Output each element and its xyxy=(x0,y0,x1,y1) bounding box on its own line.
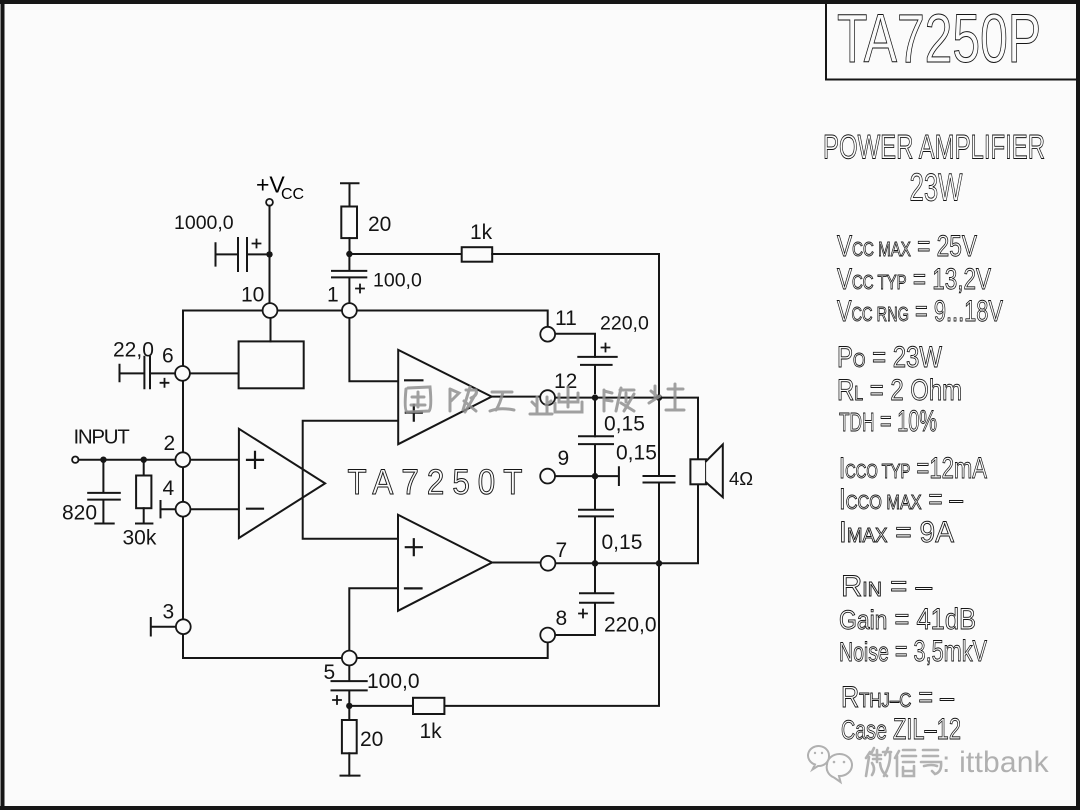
svg-text:7: 7 xyxy=(556,539,568,562)
pin 12 xyxy=(540,390,555,405)
resistor R 20 (bottom) xyxy=(342,706,357,776)
node 2 xyxy=(175,452,190,467)
wire pin12 row xyxy=(555,398,698,460)
svg-text:30k: 30k xyxy=(123,527,157,550)
wire lower opamp inverting input to node5 xyxy=(349,588,398,650)
resistor R 1k (bottom) xyxy=(413,698,444,714)
node junction pin7/220 xyxy=(592,560,598,566)
svg-text:INPUT: INPUT xyxy=(74,426,131,449)
watermark 防 xyxy=(450,387,476,412)
node junction pin12/feedback xyxy=(656,394,662,400)
svg-text:PO = 23W: PO = 23W xyxy=(837,341,943,374)
node junction Vcc/C1000 xyxy=(266,251,272,257)
node 10 xyxy=(263,303,278,318)
svg-text:Gain = 41dB: Gain = 41dB xyxy=(839,603,976,636)
node junction input/820 xyxy=(100,457,106,463)
capacitor C 0,15 (feedback rail) xyxy=(644,393,675,563)
watermark 微 xyxy=(866,748,891,776)
svg-text:12: 12 xyxy=(554,370,577,393)
svg-text:IMAX = 9A: IMAX = 9A xyxy=(839,516,954,549)
wire 220,0 to 0,15 xyxy=(594,398,596,437)
wire 1k to node junction xyxy=(349,705,413,707)
svg-text:ICCO TYP =12mA: ICCO TYP =12mA xyxy=(839,452,987,485)
wire top bus node10-node1-pin11 xyxy=(183,311,548,328)
wire bottom bus to pin8 xyxy=(183,643,548,658)
svg-text:4: 4 xyxy=(163,477,175,500)
svg-text:VCC RNG = 9...18V: VCC RNG = 9...18V xyxy=(837,295,1003,328)
svg-text:RTHJ–C = –: RTHJ–C = – xyxy=(841,681,954,714)
svg-text:RL = 2 Ohm: RL = 2 Ohm xyxy=(837,374,962,407)
wire lower opamp output to pin7 xyxy=(492,562,540,564)
Vcc terminal xyxy=(266,199,273,206)
wire pin7 row xyxy=(555,484,698,563)
wire node4 to input opamp xyxy=(191,508,239,510)
svg-text:3: 3 xyxy=(163,601,175,624)
svg-text:100,0: 100,0 xyxy=(373,270,422,292)
wire node6 to block xyxy=(190,372,239,374)
op-amp input stage xyxy=(239,429,325,538)
watermark 业 xyxy=(530,397,552,414)
svg-text:VCC TYP = 13,2V: VCC TYP = 13,2V xyxy=(837,263,991,296)
wire to 1k top xyxy=(349,253,461,255)
node junction pin9 column xyxy=(592,473,598,479)
capacitor C 220,0 (bottom) xyxy=(555,563,613,635)
node junction pin7/feedback xyxy=(656,560,662,566)
svg-text:0,15: 0,15 xyxy=(616,442,657,465)
ground xyxy=(341,775,360,777)
watermark 信 xyxy=(895,750,916,776)
label +Vcc xyxy=(256,172,304,204)
wire pin9 row with stub plate xyxy=(555,467,619,485)
wire 1k to feedback rail xyxy=(492,254,659,393)
wire bracket opamp outputs to power inputs xyxy=(303,421,399,539)
svg-text:1000,0: 1000,0 xyxy=(174,212,234,234)
svg-text:0,15: 0,15 xyxy=(604,413,645,436)
svg-text:Noise = 3,5mkV: Noise = 3,5mkV xyxy=(839,635,987,668)
capacitor C 100,0 (top) xyxy=(332,254,366,303)
svg-text:1k: 1k xyxy=(420,720,443,743)
pin 3 stub xyxy=(151,618,176,636)
watermark 出 xyxy=(555,387,582,412)
node junction pin12/220 xyxy=(592,394,598,400)
svg-text:23W: 23W xyxy=(910,167,963,210)
node 6 xyxy=(175,366,190,381)
op-amp upper power stage xyxy=(398,350,491,444)
pin 9 xyxy=(540,469,555,484)
block (standby/ripple filter) xyxy=(239,341,304,388)
watermark 号 xyxy=(921,750,941,774)
wire feedback rail lower xyxy=(444,563,659,706)
pin 11 xyxy=(540,327,555,342)
svg-text:9: 9 xyxy=(558,447,570,470)
svg-text:100,0: 100,0 xyxy=(367,670,420,693)
capacitor C 22,0 xyxy=(120,357,176,389)
node 1 xyxy=(342,303,357,318)
resistor R 1k (top) xyxy=(462,247,493,262)
svg-text:CC: CC xyxy=(281,186,304,203)
svg-text:8: 8 xyxy=(556,607,568,630)
input terminal xyxy=(72,457,78,463)
svg-text:820: 820 xyxy=(62,502,97,525)
node junction input/30k xyxy=(141,457,147,463)
svg-text:220,0: 220,0 xyxy=(600,313,649,335)
svg-text:RIN = –: RIN = – xyxy=(841,570,932,603)
svg-text:TDH = 10%: TDH = 10% xyxy=(839,405,937,438)
svg-text:11: 11 xyxy=(555,307,577,330)
wire block to node10 xyxy=(270,318,272,342)
watermark 版 xyxy=(604,388,634,411)
svg-text:VCC MAX = 25V: VCC MAX = 25V xyxy=(837,230,977,263)
resistor R 20 (top) with supply bar xyxy=(341,183,359,254)
wire node1 to top opamp inverting input xyxy=(349,318,398,381)
svg-text:22,0: 22,0 xyxy=(113,339,154,362)
capacitor C 0,15 (first) xyxy=(579,436,613,476)
capacitor C 1000,0 xyxy=(216,238,270,271)
node junction R20/1k xyxy=(346,251,352,257)
svg-text:2: 2 xyxy=(164,432,176,455)
svg-text:220,0: 220,0 xyxy=(604,614,657,637)
capacitor C 820 xyxy=(88,460,120,524)
svg-text:: ittbank: : ittbank xyxy=(942,746,1050,779)
watermark 工 xyxy=(490,392,514,411)
svg-text:POWER AMPLIFIER: POWER AMPLIFIER xyxy=(823,129,1045,167)
svg-text:4Ω: 4Ω xyxy=(729,468,753,489)
title box xyxy=(826,2,1078,80)
wechat logo bubbles xyxy=(808,746,852,782)
wire pin11 branch xyxy=(555,334,595,357)
svg-text:10: 10 xyxy=(241,284,264,307)
op-amp lower power stage xyxy=(398,515,492,611)
svg-text:6: 6 xyxy=(162,345,174,368)
node 5 xyxy=(342,651,357,666)
node junction 100,0/1k/R20 xyxy=(346,703,352,709)
pin 4 stub xyxy=(161,501,176,517)
speaker 4 Ohm xyxy=(690,444,722,497)
svg-text:TA7250P: TA7250P xyxy=(837,0,1041,77)
svg-text:1k: 1k xyxy=(470,221,493,244)
svg-text:1: 1 xyxy=(327,284,339,307)
svg-text:20: 20 xyxy=(368,213,391,236)
node 4 xyxy=(176,502,191,517)
capacitor C 220,0 (top) xyxy=(578,344,616,394)
svg-text:20: 20 xyxy=(360,728,383,751)
wire node2 to input opamp xyxy=(190,459,239,461)
wire upper opamp output to pin12 xyxy=(492,396,541,398)
wire Vcc drop xyxy=(269,206,271,303)
wire left bus xyxy=(182,311,184,659)
svg-text:ICCO MAX = –: ICCO MAX = – xyxy=(839,483,963,516)
svg-text:5: 5 xyxy=(324,661,336,684)
svg-text:0,15: 0,15 xyxy=(602,531,643,554)
pin 8 xyxy=(540,628,555,643)
capacitor C 0,15 (second) xyxy=(579,476,613,563)
svg-text:TA7250T: TA7250T xyxy=(348,463,531,502)
svg-text:Case ZIL–12: Case ZIL–12 xyxy=(841,713,961,746)
node 3 xyxy=(176,619,191,634)
pin 7 xyxy=(541,556,556,571)
watermark 国 xyxy=(405,387,431,412)
watermark 社 xyxy=(649,384,684,410)
capacitor C 100,0 (bottom) xyxy=(332,666,367,706)
resistor R 30k xyxy=(136,460,152,524)
wire input row xyxy=(79,459,176,461)
